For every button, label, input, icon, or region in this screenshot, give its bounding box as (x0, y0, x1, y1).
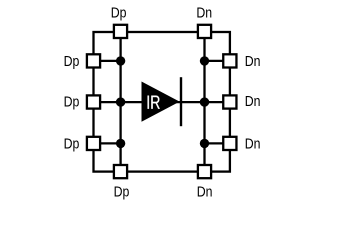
svg-text:Dn: Dn (197, 184, 213, 200)
svg-text:Dp: Dp (114, 184, 130, 200)
svg-text:Dp: Dp (111, 5, 127, 21)
svg-text:Dn: Dn (245, 93, 261, 109)
svg-text:Dp: Dp (64, 53, 80, 69)
svg-text:Dp: Dp (64, 136, 80, 152)
svg-text:Dn: Dn (245, 136, 261, 152)
svg-text:Dn: Dn (245, 53, 261, 69)
svg-text:Dn: Dn (196, 5, 212, 21)
svg-text:Dp: Dp (64, 93, 80, 109)
